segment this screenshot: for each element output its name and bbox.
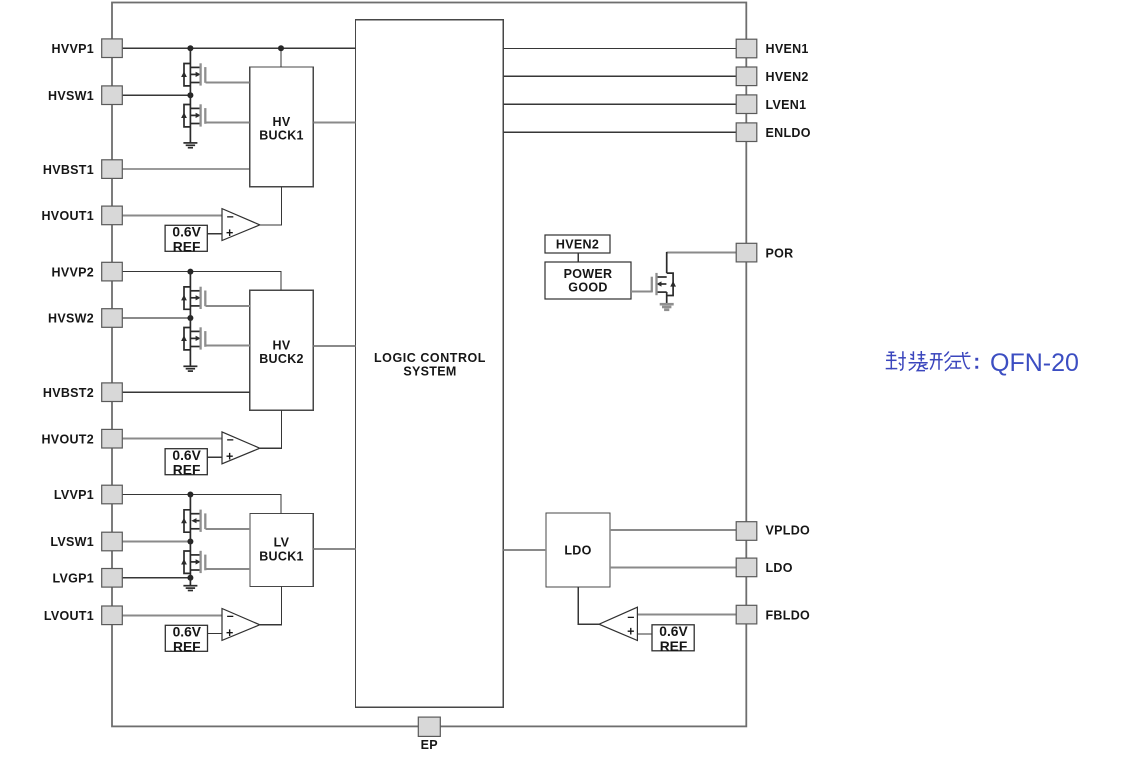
- pin HVBST1: [43, 160, 122, 179]
- wire LVSW1: [122, 541, 190, 543]
- pin LVOUT1: [44, 606, 122, 625]
- pin FBLDO: [736, 605, 810, 624]
- wire U2 output to HV BUCK2 bottom: [260, 410, 282, 448]
- wire Q7 drain to POR pad: [667, 252, 737, 254]
- svg-text:HVSW2: HVSW2: [48, 312, 94, 326]
- pin LVSW1: [50, 532, 122, 551]
- svg-text:HVEN1: HVEN1: [766, 42, 809, 56]
- block LV BUCK1: [250, 514, 313, 587]
- svg-text:HVOUT1: HVOUT1: [41, 209, 94, 223]
- ground G1: [183, 143, 197, 148]
- block HV BUCK1: [250, 67, 314, 187]
- svg-text:BUCK2: BUCK2: [259, 352, 304, 366]
- glyph 装: [909, 351, 928, 371]
- wire Q6 gate lead: [206, 568, 251, 570]
- svg-text:LVOUT1: LVOUT1: [44, 609, 94, 623]
- ground G3: [183, 586, 197, 591]
- reference REF3 0.6V: [165, 625, 207, 655]
- wire LVVP1: [122, 495, 281, 514]
- svg-text:LDO: LDO: [766, 561, 793, 575]
- wire LVGP1: [122, 577, 190, 579]
- node junction dot LVGP1: [187, 575, 193, 581]
- wire HVBST1: [122, 168, 249, 170]
- transistor Q6 low-side LV BUCK1: [181, 551, 205, 574]
- svg-text:HVSW1: HVSW1: [48, 89, 94, 103]
- wire LVOUT1 to comparator: [122, 614, 222, 616]
- block POWER GOOD: [545, 262, 631, 299]
- ground G2: [183, 366, 197, 371]
- comparator U3: [222, 609, 260, 641]
- svg-text:POR: POR: [766, 246, 794, 260]
- transistor Q3 high-side HV BUCK2: [181, 287, 205, 310]
- svg-text:HV: HV: [273, 115, 291, 129]
- wire Q3 Q4 drain-source chain: [189, 272, 191, 367]
- wire logic to HVEN2: [503, 75, 736, 77]
- pin LVEN1: [736, 95, 806, 114]
- wire logic to HVEN1: [503, 48, 736, 50]
- svg-text:LDO: LDO: [564, 544, 591, 558]
- wire REF4 to U4 plus input: [637, 633, 652, 635]
- glyph 封: [886, 351, 906, 370]
- node junction dot HVSW2: [187, 315, 193, 321]
- wire U4 output to LDO bottom: [578, 587, 599, 624]
- svg-text:+: +: [627, 624, 634, 638]
- wire Q1 Q2 drain-source chain: [189, 48, 191, 143]
- pin HVEN1: [736, 39, 808, 58]
- pin HVBST2: [43, 383, 122, 402]
- transistor Q1 high-side HV BUCK1: [181, 63, 205, 86]
- svg-text:VPLDO: VPLDO: [766, 524, 811, 538]
- wire HVSW1: [122, 94, 190, 96]
- pin POR: [736, 243, 793, 262]
- wire HVVP2: [122, 272, 281, 291]
- glyph 形: [930, 352, 952, 371]
- block HV BUCK2: [250, 290, 314, 410]
- glyph fullwidth colon: [975, 358, 978, 369]
- pin HVEN2: [736, 67, 808, 86]
- block LDO: [546, 513, 610, 587]
- wire logic to LDO: [503, 549, 546, 551]
- node junction dot LVSW1: [187, 539, 193, 545]
- wire HVVP1: [122, 47, 355, 49]
- node junction dot HVVP1/BUCK1: [278, 45, 284, 51]
- pin HVVP2: [52, 262, 123, 281]
- reference REF1 0.6V: [165, 225, 207, 255]
- wire Q5 Q6 drain-source chain: [189, 495, 191, 586]
- wire U3 output to LV BUCK1 bottom: [260, 587, 282, 625]
- svg-text:GOOD: GOOD: [568, 281, 607, 295]
- wire logic to LVEN1: [503, 103, 736, 105]
- wire Q1 gate lead: [206, 82, 250, 84]
- reference REF2 0.6V: [165, 448, 207, 478]
- wire FBLDO to comparator U4: [637, 614, 736, 616]
- pin HVOUT1: [41, 206, 122, 225]
- wire REF2 to U2 plus input: [207, 456, 222, 458]
- wire HVSW2: [122, 317, 190, 319]
- node junction dot HVVP1/Q1 drain: [187, 45, 193, 51]
- svg-text:HVEN2: HVEN2: [766, 70, 809, 84]
- transistor Q7 power-good indicator: [652, 273, 676, 296]
- transistor Q5 high-side LV BUCK1 (PMOS arrow left): [181, 510, 205, 533]
- pin ENLDO: [736, 123, 811, 142]
- svg-text:QFN-20: QFN-20: [990, 349, 1079, 377]
- chip outer boundary: [112, 3, 746, 727]
- svg-text:LVEN1: LVEN1: [766, 98, 807, 112]
- block LOGIC CONTROL SYSTEM: [356, 20, 504, 708]
- wire HVBST2: [122, 391, 250, 393]
- svg-text:POWER: POWER: [564, 267, 613, 281]
- svg-text:–: –: [627, 610, 634, 624]
- wire Q4 gate lead: [206, 345, 250, 347]
- pin HVVP1: [52, 39, 123, 58]
- svg-text:HVBST1: HVBST1: [43, 163, 94, 177]
- wire Q7 gate lead to POWER GOOD: [631, 291, 652, 293]
- svg-text:LVGP1: LVGP1: [52, 572, 94, 586]
- svg-text:HVEN2: HVEN2: [556, 238, 599, 252]
- svg-text:LOGIC CONTROL: LOGIC CONTROL: [374, 351, 486, 365]
- svg-text:EP: EP: [421, 738, 438, 752]
- reference REF4 0.6V: [652, 624, 694, 654]
- ground G4: [660, 304, 674, 310]
- wire HV BUCK1 output to logic: [313, 122, 355, 124]
- svg-text:HVVP2: HVVP2: [52, 265, 95, 279]
- wire HV BUCK2 output to logic: [313, 345, 355, 347]
- wire Q7 drain vertical: [666, 252, 668, 273]
- svg-text:HVOUT2: HVOUT2: [41, 432, 94, 446]
- pin HVOUT2: [41, 429, 122, 448]
- node junction dot HVVP2: [187, 269, 193, 275]
- wire logic to ENLDO: [503, 131, 736, 133]
- transistor Q4 low-side HV BUCK2: [181, 327, 205, 350]
- svg-text:LVSW1: LVSW1: [50, 535, 94, 549]
- pin HVSW1: [48, 86, 122, 105]
- wire Q2 gate lead: [206, 122, 250, 124]
- svg-text:SYSTEM: SYSTEM: [403, 365, 456, 379]
- pin VPLDO: [736, 522, 810, 541]
- pin HVSW2: [48, 309, 122, 328]
- wire HVEN2 box to POWER GOOD: [577, 253, 579, 262]
- svg-text:HVVP1: HVVP1: [52, 42, 95, 56]
- pin LDO: [736, 558, 793, 577]
- pin EP: [418, 717, 440, 752]
- wire HVOUT1 to comparator: [122, 214, 222, 216]
- wire branch HVVP1 to HV BUCK1 top: [280, 48, 282, 67]
- wire REF1 to U1 plus input: [207, 233, 222, 235]
- wire U1 output to HV BUCK1 bottom: [260, 187, 282, 225]
- svg-text:BUCK1: BUCK1: [259, 550, 304, 564]
- wire Q5 gate lead: [206, 528, 251, 530]
- node junction dot LVVP1: [187, 492, 193, 498]
- wire REF3 to U3 plus input: [208, 633, 223, 635]
- wire LDO to VPLDO: [610, 529, 736, 531]
- svg-text:ENLDO: ENLDO: [766, 126, 811, 140]
- comparator U2: [222, 432, 260, 464]
- svg-text:LVVP1: LVVP1: [54, 488, 94, 502]
- svg-text:HV: HV: [273, 339, 291, 353]
- node junction dot HVSW1: [187, 92, 193, 98]
- wire HVOUT2 to comparator: [122, 438, 222, 440]
- node label box HVEN2: [545, 235, 610, 253]
- svg-text:LV: LV: [274, 536, 290, 550]
- comparator U1: [222, 209, 260, 241]
- annotation 封装形式：QFN-20: [886, 351, 979, 371]
- transistor Q2 low-side HV BUCK1: [181, 104, 205, 127]
- wire Q7 source chain to ground: [666, 292, 668, 304]
- svg-text:FBLDO: FBLDO: [766, 608, 811, 622]
- pin LVVP1: [54, 485, 122, 504]
- wire LDO to LDO pad: [610, 566, 736, 568]
- svg-text:HVBST2: HVBST2: [43, 386, 94, 400]
- svg-text:BUCK1: BUCK1: [259, 129, 304, 143]
- pin LVGP1: [52, 569, 122, 588]
- comparator U4 (points left): [599, 607, 637, 640]
- wire LV BUCK1 output to logic: [313, 548, 355, 550]
- wire Q3 gate lead: [206, 305, 250, 307]
- glyph 式: [950, 352, 970, 369]
